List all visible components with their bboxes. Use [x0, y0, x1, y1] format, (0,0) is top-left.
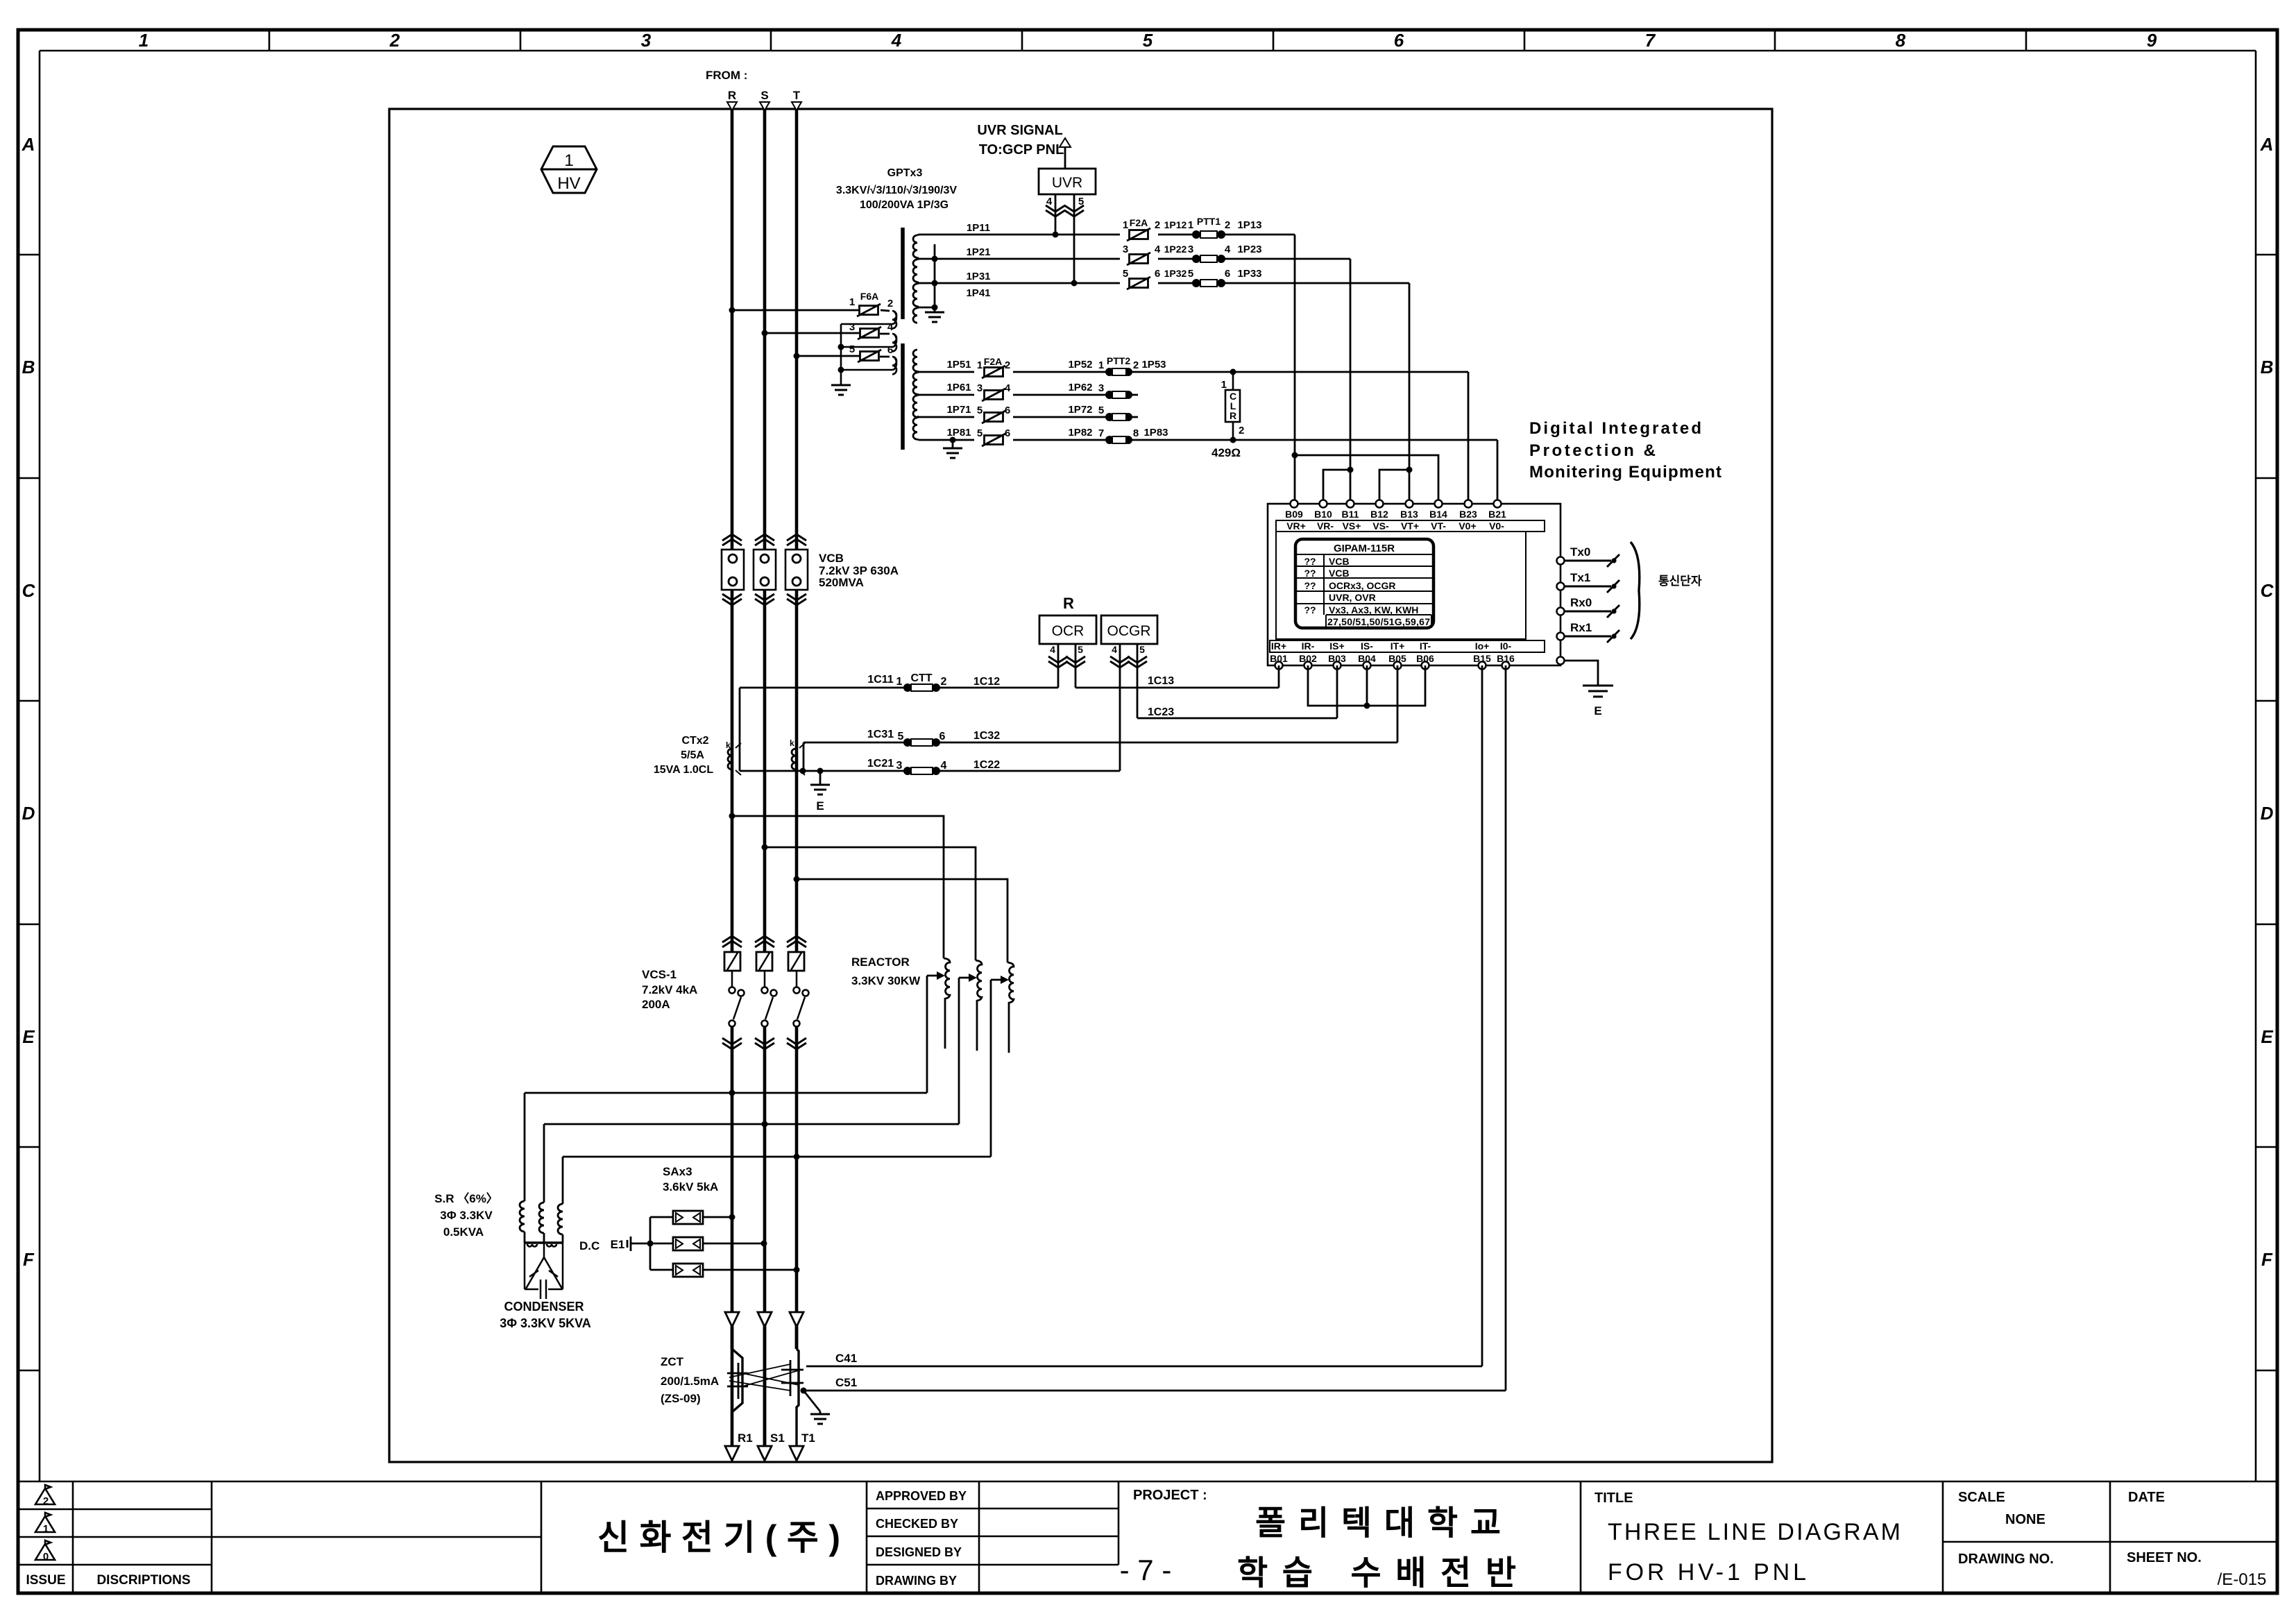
svg-text:THREE LINE DIAGRAM: THREE LINE DIAGRAM — [1608, 1519, 1900, 1545]
svg-text:1: 1 — [43, 1523, 49, 1535]
svg-text:ISSUE: ISSUE — [26, 1573, 65, 1588]
svg-text:PROJECT :: PROJECT : — [1133, 1488, 1207, 1503]
svg-text:Digital Integrated: Digital Integrated — [1529, 419, 1701, 438]
svg-text:PTT1: PTT1 — [1197, 216, 1221, 227]
svg-text:1C12: 1C12 — [973, 676, 1000, 688]
svg-text:1P13: 1P13 — [1237, 219, 1261, 231]
svg-text:1P12: 1P12 — [1164, 219, 1187, 230]
svg-text:VCB: VCB — [819, 552, 844, 565]
svg-text:200/1.5mA: 200/1.5mA — [661, 1375, 719, 1388]
svg-text:S.R 〈6%〉: S.R 〈6%〉 — [434, 1191, 498, 1205]
svg-text:1C11: 1C11 — [867, 674, 893, 686]
svg-text:VR+: VR+ — [1286, 520, 1306, 532]
svg-text:3Φ 3.3KV 5KVA: 3Φ 3.3KV 5KVA — [500, 1316, 591, 1330]
svg-text:FROM :: FROM : — [706, 69, 747, 82]
svg-text:2: 2 — [1239, 425, 1244, 436]
svg-text:F2A: F2A — [984, 356, 1002, 367]
svg-text:7.2kV 4kA: 7.2kV 4kA — [642, 983, 697, 996]
svg-text:VR-: VR- — [1317, 520, 1334, 532]
svg-text:??: ?? — [1304, 604, 1316, 615]
svg-text:3: 3 — [1123, 244, 1128, 255]
svg-text:4: 4 — [941, 760, 947, 772]
svg-text:ZCT: ZCT — [661, 1355, 684, 1368]
svg-text:5: 5 — [1098, 405, 1104, 416]
svg-text:B15: B15 — [1473, 653, 1491, 664]
svg-text:3: 3 — [1188, 244, 1193, 255]
svg-text:D.C: D.C — [579, 1239, 599, 1252]
svg-text:1P32: 1P32 — [1164, 268, 1187, 279]
svg-text:DATE: DATE — [2128, 1490, 2165, 1505]
svg-text:1C22: 1C22 — [973, 759, 1000, 771]
svg-text:Tx1: Tx1 — [1570, 571, 1590, 584]
svg-text:E: E — [816, 799, 824, 813]
svg-text:5: 5 — [898, 731, 904, 742]
svg-text:OCGR: OCGR — [1107, 623, 1151, 639]
svg-text:2: 2 — [1155, 219, 1160, 231]
svg-text:1P23: 1P23 — [1237, 244, 1261, 255]
svg-text:3: 3 — [977, 382, 983, 394]
svg-text:VS+: VS+ — [1343, 520, 1361, 532]
svg-text:Vx3, Ax3, KW, KWH: Vx3, Ax3, KW, KWH — [1329, 604, 1418, 615]
svg-text:B10: B10 — [1314, 509, 1332, 520]
svg-text:VCS-1: VCS-1 — [642, 968, 677, 981]
svg-text:DISCRIPTIONS: DISCRIPTIONS — [96, 1573, 190, 1588]
svg-text:520MVA: 520MVA — [819, 576, 864, 589]
svg-text:1: 1 — [1098, 359, 1104, 371]
svg-text:DRAWING NO.: DRAWING NO. — [1958, 1552, 2054, 1567]
svg-text:1P21: 1P21 — [966, 246, 990, 258]
svg-text:SHEET NO.: SHEET NO. — [2127, 1550, 2202, 1565]
svg-text:1: 1 — [896, 676, 903, 688]
svg-text:B21: B21 — [1488, 509, 1506, 520]
svg-text:2: 2 — [1225, 219, 1230, 231]
svg-text:4: 4 — [1050, 644, 1055, 655]
svg-text:Protection &: Protection & — [1529, 441, 1656, 460]
svg-text:E: E — [22, 1026, 35, 1047]
svg-text:429Ω: 429Ω — [1211, 446, 1241, 459]
svg-text:DRAWING BY: DRAWING BY — [876, 1574, 957, 1588]
svg-text:1P52: 1P52 — [1068, 359, 1092, 371]
svg-text:4: 4 — [1112, 644, 1117, 655]
svg-text:- 7 -: - 7 - — [1120, 1554, 1172, 1586]
svg-text:8: 8 — [1896, 30, 1906, 51]
svg-text:B14: B14 — [1429, 509, 1447, 520]
svg-text:1P41: 1P41 — [966, 287, 990, 299]
svg-text:GIPAM-115R: GIPAM-115R — [1334, 543, 1395, 554]
svg-text:/E-015: /E-015 — [2218, 1570, 2267, 1589]
svg-text:Monitering Equipment: Monitering Equipment — [1529, 463, 1721, 482]
svg-text:1P83: 1P83 — [1143, 427, 1168, 439]
svg-text:6: 6 — [1225, 268, 1230, 280]
svg-text:1: 1 — [849, 296, 855, 308]
svg-text:SCALE: SCALE — [1958, 1490, 2005, 1505]
svg-text:APPROVED BY: APPROVED BY — [876, 1489, 967, 1503]
svg-text:6: 6 — [1155, 268, 1160, 280]
svg-text:B12: B12 — [1370, 509, 1388, 520]
svg-text:B09: B09 — [1285, 509, 1303, 520]
svg-text:1C23: 1C23 — [1148, 706, 1174, 718]
svg-text:1P71: 1P71 — [946, 404, 971, 416]
svg-text:1P61: 1P61 — [946, 382, 971, 393]
svg-text:PTT2: PTT2 — [1107, 355, 1130, 366]
svg-text:5: 5 — [977, 427, 983, 439]
svg-text:Io+: Io+ — [1475, 640, 1490, 652]
svg-text:4: 4 — [1005, 382, 1011, 394]
svg-text:5: 5 — [1188, 268, 1193, 280]
svg-text:1P33: 1P33 — [1237, 268, 1261, 280]
svg-text:B16: B16 — [1497, 653, 1515, 664]
svg-text:1P62: 1P62 — [1068, 382, 1092, 393]
svg-text:15VA 1.0CL: 15VA 1.0CL — [654, 764, 713, 776]
svg-text:VCB: VCB — [1329, 556, 1350, 567]
svg-text:k: k — [726, 740, 731, 750]
svg-text:1: 1 — [977, 359, 983, 371]
svg-text:B05: B05 — [1388, 653, 1406, 664]
svg-text:4: 4 — [887, 321, 894, 333]
svg-text:3.3KV/√3/110/√3/190/3V: 3.3KV/√3/110/√3/190/3V — [836, 185, 957, 196]
svg-text:5/5A: 5/5A — [681, 749, 704, 761]
svg-text:CTT: CTT — [910, 672, 932, 684]
svg-text:B04: B04 — [1358, 653, 1376, 664]
svg-text:F2A: F2A — [1130, 217, 1148, 228]
svg-text:NONE: NONE — [2005, 1512, 2046, 1527]
svg-text:B06: B06 — [1416, 653, 1434, 664]
svg-text:27,50/51,50/51G,59,67: 27,50/51,50/51G,59,67 — [1327, 616, 1430, 627]
svg-text:UVR SIGNAL: UVR SIGNAL — [977, 123, 1062, 138]
svg-text:UVR: UVR — [1052, 175, 1082, 191]
svg-text:CTx2: CTx2 — [681, 735, 708, 747]
svg-text:D: D — [2261, 803, 2274, 824]
svg-text:R: R — [1230, 410, 1236, 421]
svg-text:0.5KVA: 0.5KVA — [443, 1225, 484, 1239]
svg-text:IR-: IR- — [1302, 640, 1315, 652]
svg-text:V0-: V0- — [1489, 520, 1504, 532]
svg-text:1: 1 — [139, 30, 148, 51]
svg-text:IS+: IS+ — [1329, 640, 1344, 652]
svg-text:R1: R1 — [738, 1431, 753, 1445]
svg-text:TITLE: TITLE — [1595, 1490, 1633, 1506]
svg-text:k: k — [790, 738, 794, 748]
svg-text:3: 3 — [641, 30, 652, 51]
svg-text:3.3KV 30KW: 3.3KV 30KW — [851, 974, 921, 987]
svg-text:OCRx3, OCGR: OCRx3, OCGR — [1329, 580, 1395, 591]
svg-text:B: B — [2261, 357, 2274, 377]
svg-text:4: 4 — [1155, 244, 1161, 255]
svg-text:3: 3 — [849, 321, 855, 333]
svg-text:1P82: 1P82 — [1068, 427, 1092, 439]
svg-text:2: 2 — [1005, 359, 1010, 371]
svg-text:2: 2 — [941, 676, 947, 688]
svg-text:C: C — [22, 580, 36, 601]
svg-text:1: 1 — [1123, 219, 1128, 231]
svg-text:REACTOR: REACTOR — [851, 955, 910, 969]
svg-text:??: ?? — [1304, 580, 1316, 591]
svg-text:100/200VA 1P/3G: 100/200VA 1P/3G — [860, 199, 949, 211]
svg-text:B11: B11 — [1342, 509, 1359, 520]
svg-text:D: D — [22, 803, 35, 824]
svg-text:CONDENSER: CONDENSER — [504, 1300, 584, 1314]
svg-text:Rx0: Rx0 — [1570, 596, 1592, 609]
svg-text:6: 6 — [1005, 427, 1010, 439]
svg-text:A: A — [22, 134, 35, 155]
svg-text:B13: B13 — [1400, 509, 1418, 520]
svg-text:V0+: V0+ — [1459, 520, 1476, 532]
svg-text:SAx3: SAx3 — [663, 1165, 692, 1178]
svg-text:CHECKED BY: CHECKED BY — [876, 1517, 958, 1531]
svg-text:통신단자: 통신단자 — [1658, 575, 1702, 588]
svg-text:VCB: VCB — [1329, 568, 1350, 579]
svg-text:B03: B03 — [1328, 653, 1346, 664]
svg-text:1: 1 — [1188, 219, 1193, 231]
svg-text:1: 1 — [564, 151, 573, 170]
svg-text:IS-: IS- — [1361, 640, 1373, 652]
svg-text:1C31: 1C31 — [867, 729, 894, 740]
svg-text:1P11: 1P11 — [967, 222, 990, 234]
svg-text:2: 2 — [389, 30, 400, 51]
svg-text:B23: B23 — [1459, 509, 1477, 520]
svg-text:1P81: 1P81 — [946, 427, 971, 439]
svg-text:(ZS-09): (ZS-09) — [661, 1392, 701, 1405]
svg-text:C41: C41 — [835, 1352, 857, 1365]
svg-text:5: 5 — [977, 405, 983, 416]
svg-text:2: 2 — [1133, 359, 1139, 371]
svg-text:B02: B02 — [1299, 653, 1317, 664]
svg-text:E: E — [1594, 704, 1601, 717]
svg-text:5: 5 — [849, 343, 855, 355]
svg-text:5: 5 — [1078, 644, 1083, 655]
svg-text:3Φ 3.3KV: 3Φ 3.3KV — [440, 1209, 493, 1222]
svg-text:4: 4 — [1225, 244, 1231, 255]
svg-text:B: B — [22, 357, 35, 377]
svg-text:VT+: VT+ — [1401, 520, 1419, 532]
svg-text:A: A — [2260, 134, 2274, 155]
svg-text:5: 5 — [1123, 268, 1128, 280]
svg-text:8: 8 — [1133, 427, 1139, 439]
svg-text:F6A: F6A — [860, 291, 878, 302]
svg-text:DESIGNED BY: DESIGNED BY — [876, 1545, 962, 1559]
svg-text:3: 3 — [896, 760, 903, 772]
svg-text:IT-: IT- — [1420, 640, 1431, 652]
svg-text:GPTx3: GPTx3 — [887, 167, 923, 179]
svg-text:HV: HV — [557, 174, 580, 193]
svg-text:5: 5 — [1143, 30, 1153, 51]
svg-text:5: 5 — [1139, 644, 1145, 655]
svg-text:I0-: I0- — [1500, 640, 1512, 652]
svg-text:S: S — [760, 89, 768, 102]
svg-text:1P53: 1P53 — [1141, 359, 1166, 371]
svg-text:IR+: IR+ — [1271, 640, 1286, 652]
svg-text:2: 2 — [887, 298, 893, 309]
svg-text:VT-: VT- — [1431, 520, 1446, 532]
svg-text:7: 7 — [1098, 427, 1104, 439]
svg-text:1: 1 — [1221, 379, 1227, 391]
svg-text:6: 6 — [887, 344, 893, 356]
svg-text:6: 6 — [1005, 405, 1010, 416]
svg-text:3: 3 — [1098, 382, 1104, 394]
svg-text:200A: 200A — [642, 998, 670, 1011]
svg-text:1C21: 1C21 — [867, 758, 894, 770]
svg-text:7: 7 — [1645, 30, 1656, 51]
svg-text:Rx1: Rx1 — [1570, 621, 1592, 634]
svg-text:1P72: 1P72 — [1068, 404, 1092, 416]
svg-text:1C32: 1C32 — [973, 730, 1000, 742]
svg-text:F: F — [23, 1249, 35, 1270]
svg-text:3.6kV 5kA: 3.6kV 5kA — [663, 1180, 718, 1193]
svg-text:C: C — [2261, 580, 2274, 601]
svg-text:IT+: IT+ — [1391, 640, 1405, 652]
svg-text:UVR, OVR: UVR, OVR — [1329, 592, 1376, 603]
svg-text:1P31: 1P31 — [966, 271, 990, 282]
svg-text:1C13: 1C13 — [1148, 675, 1174, 687]
svg-text:OCR: OCR — [1052, 623, 1085, 639]
svg-text:TO:GCP PNL: TO:GCP PNL — [979, 142, 1064, 158]
svg-text:C51: C51 — [835, 1376, 857, 1389]
svg-text:6: 6 — [1394, 30, 1404, 51]
svg-text:E: E — [2261, 1026, 2273, 1047]
svg-text:FOR HV-1 PNL: FOR HV-1 PNL — [1608, 1559, 1806, 1586]
svg-text:E1: E1 — [611, 1238, 625, 1251]
svg-text:6: 6 — [939, 731, 946, 742]
svg-text:??: ?? — [1304, 556, 1316, 567]
svg-text:B01: B01 — [1270, 653, 1288, 664]
svg-text:T: T — [793, 89, 801, 102]
svg-text:1P51: 1P51 — [946, 359, 971, 371]
svg-text:4: 4 — [891, 30, 902, 51]
svg-text:Tx0: Tx0 — [1570, 545, 1590, 559]
svg-text:VS-: VS- — [1372, 520, 1389, 532]
svg-text:1P22: 1P22 — [1164, 244, 1187, 255]
svg-text:0: 0 — [43, 1551, 49, 1563]
svg-text:S1: S1 — [770, 1431, 785, 1445]
svg-text:??: ?? — [1304, 568, 1316, 579]
svg-text:2: 2 — [43, 1495, 49, 1507]
svg-text:T1: T1 — [801, 1431, 815, 1445]
svg-text:R: R — [1063, 595, 1074, 612]
svg-text:F: F — [2261, 1249, 2273, 1270]
svg-text:R: R — [728, 89, 736, 102]
svg-text:9: 9 — [2147, 30, 2157, 51]
